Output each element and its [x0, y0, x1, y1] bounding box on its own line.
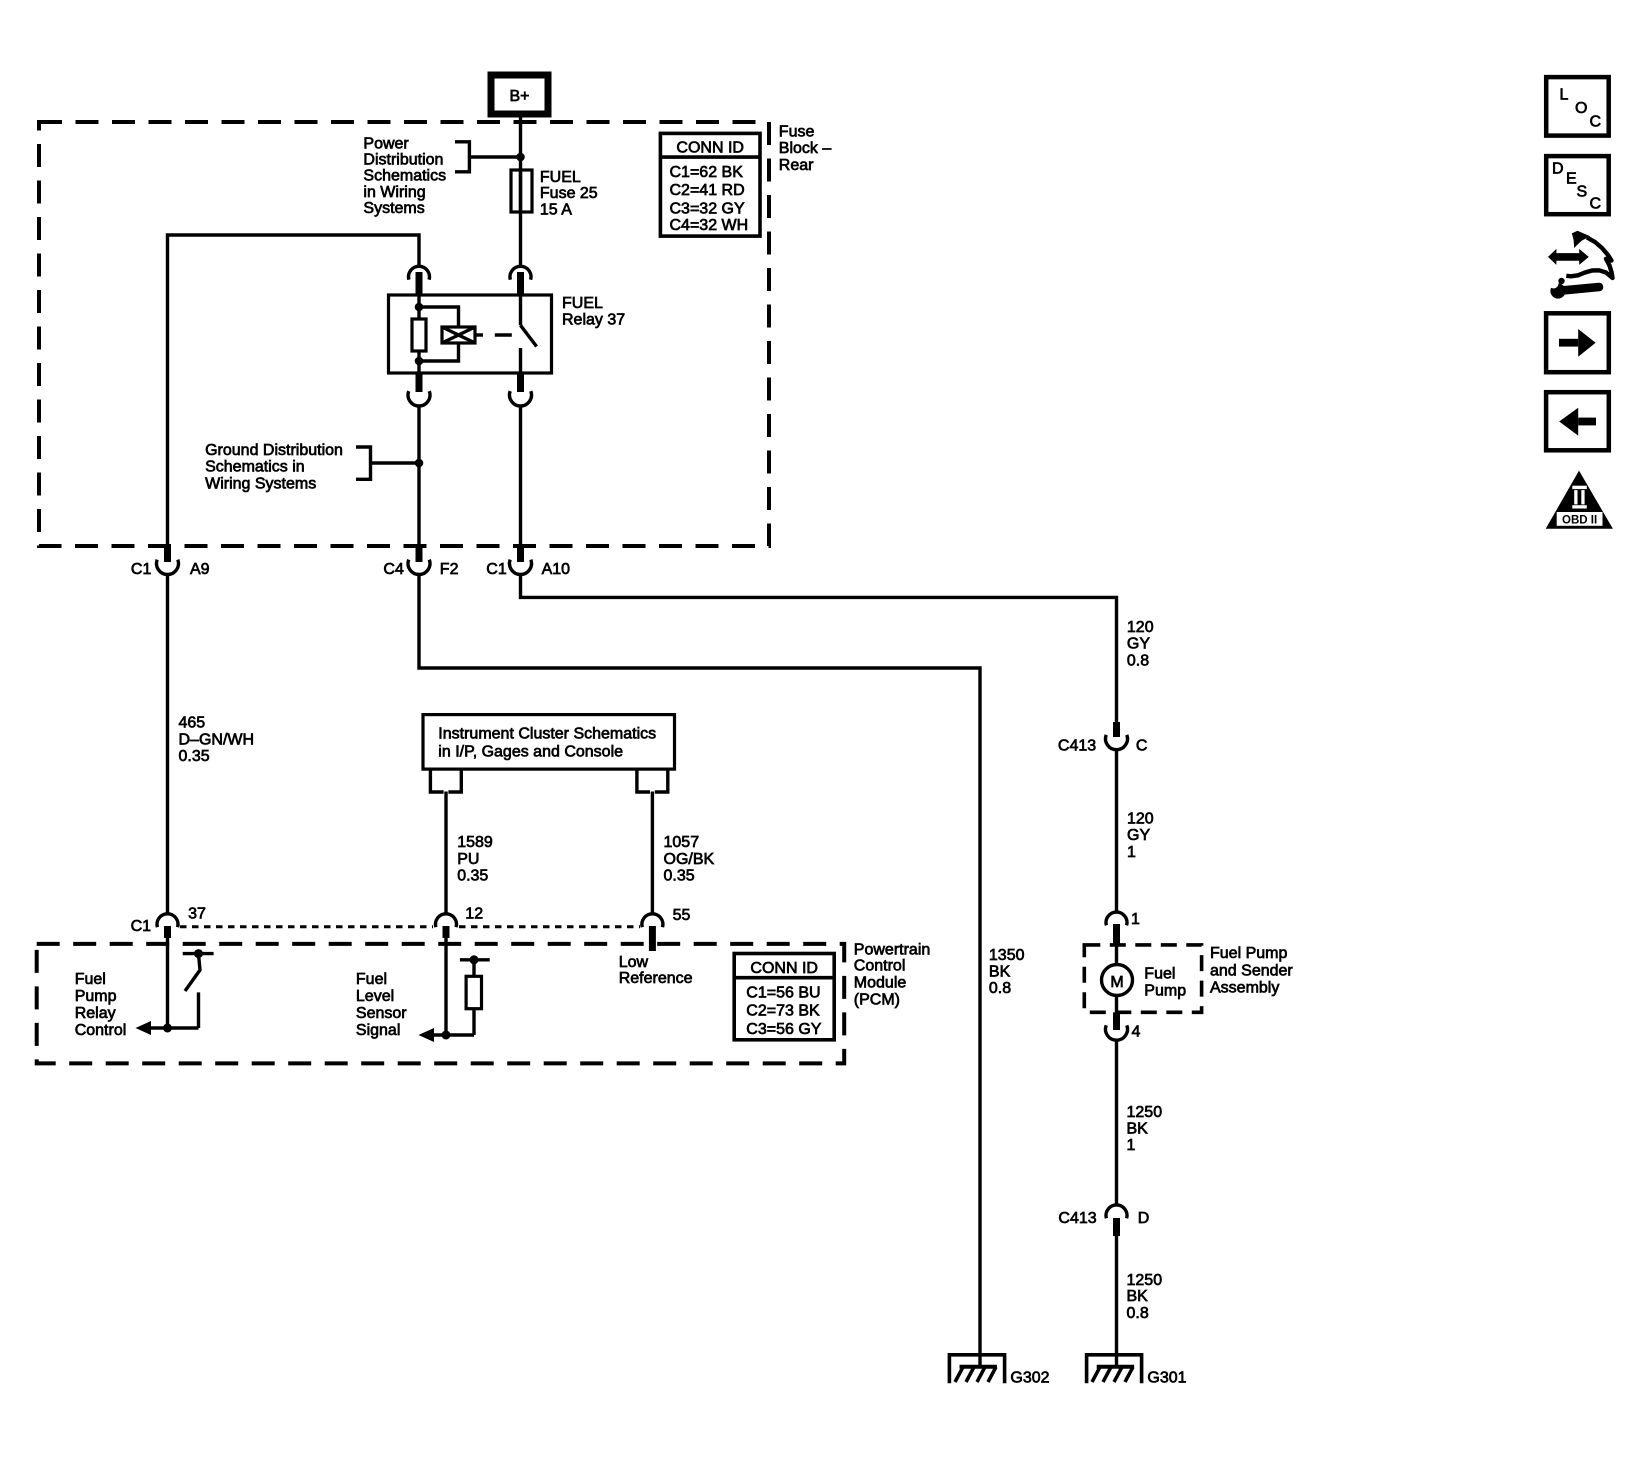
- resistor fuel level pull-up: [466, 976, 481, 1008]
- node ground distribution tap: [415, 459, 424, 468]
- connector arc relay pin left bottom: [408, 391, 430, 406]
- svg-text:Relay: Relay: [75, 1005, 116, 1022]
- svg-text:A10: A10: [542, 561, 571, 578]
- connector C1 A9 at fuse block: [131, 546, 210, 578]
- svg-text:GY: GY: [1127, 827, 1150, 844]
- ground G302: [949, 1355, 1049, 1387]
- svg-text:Pump: Pump: [1144, 982, 1186, 999]
- label Fuel Pump and Sender Assembly: [1210, 945, 1293, 997]
- relay switch contacts: [521, 295, 537, 373]
- svg-text:Signal: Signal: [356, 1022, 400, 1039]
- fuse block - rear dashed enclosure: [39, 122, 769, 546]
- svg-text:Wiring Systems: Wiring Systems: [205, 475, 316, 492]
- svg-text:1350: 1350: [989, 947, 1025, 964]
- connector C1 A10 at fuse block: [486, 546, 570, 578]
- svg-text:C1: C1: [131, 561, 152, 578]
- svg-text:Powertrain: Powertrain: [854, 941, 930, 958]
- svg-text:Fuel: Fuel: [356, 971, 387, 988]
- svg-text:PU: PU: [457, 851, 479, 868]
- label 1350 BK 0.8: [989, 947, 1025, 997]
- pin stub relay left bottom: [416, 373, 423, 392]
- label Power Distribution Schematics in Wiring Systems: [363, 136, 446, 217]
- svg-text:Schematics: Schematics: [363, 168, 446, 185]
- svg-text:120: 120: [1127, 811, 1154, 828]
- sidebar icon forward arrow: [1546, 313, 1609, 372]
- sidebar icon DESC: [1546, 156, 1609, 214]
- label Fuel Pump Relay Control: [75, 971, 127, 1039]
- svg-text:Ground Distribution: Ground Distribution: [205, 442, 343, 459]
- fuel level sense circuit: [419, 955, 490, 1042]
- label 465 D-GN/WH 0.35: [179, 715, 255, 766]
- svg-text:0.35: 0.35: [179, 748, 210, 765]
- wire 1057 OG/BK: [651, 792, 654, 916]
- wire relay left bottom to C4 F2: [417, 406, 420, 547]
- svg-text:C1: C1: [486, 561, 507, 578]
- svg-text:Fuel: Fuel: [1144, 965, 1175, 982]
- connector arc relay pin right top: [510, 266, 531, 279]
- svg-text:S: S: [1577, 184, 1588, 201]
- svg-text:0.8: 0.8: [1127, 652, 1149, 669]
- label 120 GY 1: [1127, 811, 1154, 861]
- connector arc fuel pump pin 4: [1106, 1012, 1141, 1040]
- wire relay right bottom to C1 A10: [519, 406, 522, 547]
- pin stub relay right bottom: [517, 373, 524, 392]
- svg-text:FUEL: FUEL: [562, 295, 603, 312]
- pin stub relay left top: [416, 272, 423, 295]
- connector arc fuel pump pin 1: [1106, 911, 1140, 944]
- svg-text:L: L: [1560, 87, 1569, 104]
- svg-text:Power: Power: [363, 136, 409, 153]
- wire pin 37 into PCM: [166, 938, 169, 1028]
- svg-text:Assembly: Assembly: [1210, 980, 1279, 997]
- svg-text:in Wiring: in Wiring: [363, 184, 425, 201]
- label Low Reference: [619, 954, 693, 987]
- svg-text:1: 1: [1127, 844, 1136, 861]
- dashed actuation link: [495, 333, 512, 336]
- svg-text:C: C: [1136, 737, 1148, 754]
- svg-text:1589: 1589: [457, 834, 493, 851]
- svg-text:FUEL: FUEL: [540, 169, 581, 186]
- label Powertrain Control Module (PCM): [854, 941, 930, 1008]
- resistor relay coil suppression: [412, 319, 426, 351]
- fuse FUEL Fuse 25 15A: [511, 170, 532, 267]
- PCM dashed enclosure: [37, 944, 845, 1064]
- motor M fuel pump: [1102, 965, 1187, 1000]
- svg-text:C4: C4: [383, 561, 404, 578]
- connector arc relay pin left top: [409, 266, 430, 279]
- label Ground Distribution Schematics in Wiring Systems: [205, 442, 343, 493]
- svg-text:C1=62 BK: C1=62 BK: [670, 164, 744, 181]
- connector arc relay pin right bottom: [510, 391, 532, 406]
- svg-text:1250: 1250: [1127, 1104, 1163, 1121]
- svg-text:12: 12: [465, 906, 483, 923]
- wire 1250 BK 0.8: [1115, 1236, 1118, 1367]
- connector C4 F2 at fuse block: [383, 546, 458, 578]
- svg-text:(PCM): (PCM): [854, 992, 900, 1009]
- label FUEL Relay 37: [562, 295, 625, 328]
- svg-text:BK: BK: [989, 964, 1011, 981]
- svg-text:BK: BK: [1127, 1288, 1149, 1305]
- svg-text:Reference: Reference: [619, 970, 693, 987]
- svg-text:BK: BK: [1127, 1121, 1149, 1138]
- label Fuel Level Sensor Signal: [356, 971, 407, 1039]
- svg-text:4: 4: [1132, 1023, 1141, 1040]
- sidebar icon shortcut arrows wrench: [1548, 231, 1613, 299]
- svg-text:G301: G301: [1147, 1369, 1186, 1386]
- wire pin 12 into PCM: [444, 938, 447, 1035]
- svg-text:and Sender: and Sender: [1210, 962, 1293, 979]
- svg-text:C: C: [1590, 196, 1602, 213]
- connector arc PCM pin 55: [642, 907, 691, 951]
- svg-text:Fuse 25: Fuse 25: [540, 185, 598, 202]
- svg-text:1250: 1250: [1127, 1272, 1163, 1289]
- svg-text:Rear: Rear: [779, 157, 814, 174]
- relay FUEL Relay 37 box: [389, 295, 552, 373]
- label 120 GY 0.8: [1127, 619, 1154, 669]
- svg-text:C: C: [1590, 114, 1602, 131]
- svg-text:G302: G302: [1010, 1369, 1049, 1386]
- svg-text:C3=32 GY: C3=32 GY: [670, 200, 745, 217]
- svg-text:Distribution: Distribution: [363, 152, 443, 169]
- svg-text:Systems: Systems: [363, 200, 424, 217]
- svg-text:C1=56 BU: C1=56 BU: [746, 985, 820, 1002]
- svg-text:A9: A9: [190, 561, 210, 578]
- wire 120 GY 1: [1115, 750, 1118, 913]
- svg-text:D: D: [1552, 161, 1564, 178]
- connector C413 D: [1058, 1205, 1149, 1236]
- connector C413 C: [1058, 722, 1148, 754]
- wire 465 D-GN/WH from A9 to PCM pin 37: [166, 575, 169, 915]
- svg-text:Instrument Cluster Schematics: Instrument Cluster Schematics: [438, 726, 656, 743]
- svg-text:CONN ID: CONN ID: [750, 960, 818, 977]
- node junction at power distribution tap: [516, 153, 525, 162]
- CONN ID table PCM: [734, 954, 834, 1040]
- svg-text:B+: B+: [509, 88, 529, 105]
- svg-text:Relay 37: Relay 37: [562, 312, 625, 329]
- svg-text:Module: Module: [854, 975, 907, 992]
- svg-text:Sensor: Sensor: [356, 1005, 407, 1022]
- svg-text:C2=41 RD: C2=41 RD: [670, 182, 745, 199]
- svg-text:D: D: [1138, 1210, 1150, 1227]
- svg-text:Level: Level: [356, 988, 394, 1005]
- pin stub relay right top: [517, 272, 524, 295]
- sidebar icon back arrow: [1546, 392, 1609, 450]
- svg-text:Schematics in: Schematics in: [205, 459, 305, 476]
- svg-text:465: 465: [179, 715, 206, 732]
- wire B+ down to fuse: [519, 114, 522, 170]
- svg-text:OG/BK: OG/BK: [664, 851, 715, 868]
- svg-text:D–GN/WH: D–GN/WH: [179, 732, 255, 749]
- fuel pump relay control driver switch: [136, 949, 214, 1035]
- svg-text:Fuse: Fuse: [779, 124, 815, 141]
- leader bracket Ground Distribution: [356, 447, 419, 479]
- battery terminal B+: [491, 75, 548, 114]
- svg-text:0.8: 0.8: [1127, 1305, 1149, 1322]
- fuel pump and sender assembly dashed box: [1084, 945, 1201, 1012]
- svg-text:Fuel Pump: Fuel Pump: [1210, 945, 1287, 962]
- svg-text:0.35: 0.35: [664, 868, 695, 885]
- svg-text:CONN ID: CONN ID: [676, 140, 744, 157]
- wire from F2 to G302: [419, 575, 980, 1367]
- svg-text:15 A: 15 A: [540, 202, 572, 219]
- svg-text:Pump: Pump: [75, 988, 117, 1005]
- svg-text:C2=73 BK: C2=73 BK: [746, 1003, 820, 1020]
- label 1589 PU 0.35: [457, 834, 493, 885]
- svg-text:Control: Control: [854, 958, 906, 975]
- wire 1589 PU: [444, 792, 447, 916]
- sidebar icon LOC: [1546, 77, 1609, 136]
- connector arc PCM pin 12: [436, 906, 484, 939]
- label Fuse Block - Rear: [779, 124, 832, 175]
- svg-text:1057: 1057: [664, 834, 700, 851]
- svg-text:Low: Low: [619, 954, 649, 971]
- wire relay pin 86 jog to A9: [168, 235, 420, 546]
- svg-text:1: 1: [1127, 1137, 1136, 1154]
- label 1057 OG/BK 0.35: [664, 834, 715, 885]
- svg-text:E: E: [1566, 171, 1577, 188]
- svg-text:55: 55: [673, 907, 691, 924]
- svg-text:0.8: 0.8: [989, 980, 1011, 997]
- svg-text:Fuel: Fuel: [75, 971, 106, 988]
- svg-text:O: O: [1575, 100, 1587, 117]
- leader bracket Power Distribution: [455, 142, 521, 172]
- instrument cluster reference box: [423, 715, 675, 770]
- label FUEL Fuse 25 15 A: [540, 169, 598, 218]
- wire 120 GY from A10: [521, 575, 1117, 723]
- svg-text:C413: C413: [1058, 737, 1096, 754]
- svg-text:OBD II: OBD II: [1562, 515, 1597, 527]
- label 1250 BK 1: [1127, 1104, 1163, 1154]
- wire into pump motor: [1115, 944, 1118, 965]
- sidebar icon OBD II triangle: [1546, 471, 1613, 529]
- svg-text:1: 1: [1131, 911, 1140, 928]
- wire 1250 BK 1: [1115, 1042, 1118, 1206]
- svg-text:Block –: Block –: [779, 140, 832, 157]
- svg-text:C4=32 WH: C4=32 WH: [670, 217, 749, 234]
- svg-text:0.35: 0.35: [457, 868, 488, 885]
- connector stub brackets below cluster box: [430, 769, 461, 792]
- svg-text:C3=56 GY: C3=56 GY: [746, 1021, 821, 1038]
- relay coil branch wiring: [415, 295, 459, 373]
- connector arc PCM pin 37: [131, 906, 206, 939]
- ground G301: [1087, 1355, 1187, 1387]
- svg-text:C1: C1: [131, 918, 152, 935]
- svg-text:GY: GY: [1127, 636, 1150, 653]
- svg-text:Control: Control: [75, 1022, 127, 1039]
- wire motor to pin 4: [1115, 996, 1118, 1013]
- svg-text:120: 120: [1127, 619, 1154, 636]
- dotted PCM connector face line: [180, 925, 433, 928]
- relay coil box with X: [442, 327, 483, 343]
- svg-text:in I/P, Gages and Console: in I/P, Gages and Console: [438, 743, 623, 760]
- svg-text:M: M: [1110, 974, 1123, 991]
- svg-text:F2: F2: [440, 561, 459, 578]
- label 1250 BK 0.8: [1127, 1272, 1163, 1322]
- svg-text:37: 37: [188, 906, 206, 923]
- svg-text:C413: C413: [1058, 1210, 1096, 1227]
- CONN ID table fuse block: [660, 133, 760, 236]
